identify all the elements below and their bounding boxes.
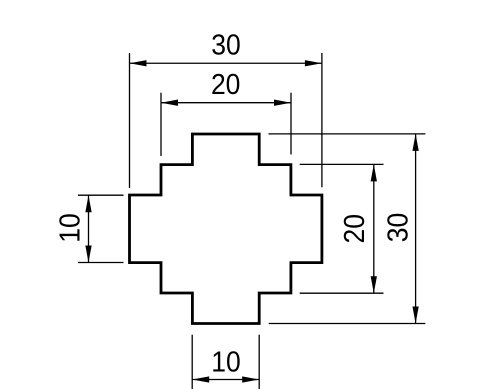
dimension 10 bottom: extension line left (191, 335, 193, 389)
dimension 10 left: extension line bottom (78, 262, 124, 264)
dimension 10 left: bottom arrowhead (85, 246, 91, 263)
dimension 30 right: bottom arrowhead (412, 307, 418, 324)
dimension 10 left: dimension line (88, 195, 90, 262)
dimension 10 left: label 10 (55, 213, 87, 243)
dimension 10 left: extension line top (78, 194, 124, 196)
dimension 30 right: extension line bottom (269, 323, 426, 325)
dimension 10 bottom: right arrowhead (242, 376, 259, 382)
svg-text:10: 10 (55, 213, 87, 243)
svg-text:30: 30 (382, 213, 414, 243)
dimension 20 right: extension line bottom (300, 292, 384, 294)
dimension 30 top: label 30 (211, 30, 241, 62)
dimension 10 bottom: extension line right (258, 335, 260, 389)
dimension 20 top: left arrowhead (161, 100, 178, 106)
dimension 20 top: right arrowhead (274, 100, 291, 106)
dimension 30 top: left arrowhead (130, 60, 147, 66)
dimension 30 top: right arrowhead (305, 60, 322, 66)
svg-text:10: 10 (211, 346, 241, 378)
dimension 20 top: extension line left (160, 93, 162, 156)
dimension 20 right: top arrowhead (371, 164, 377, 181)
dimension 30 right: dimension line (415, 134, 417, 324)
dimension 20 top: extension line right (290, 93, 292, 155)
dimension 30 right: label 30 (382, 213, 414, 243)
dimension 30 top: extension line right (321, 53, 323, 187)
svg-text:20: 20 (211, 69, 241, 101)
dimension 10 bottom: left arrowhead (192, 376, 209, 382)
svg-text:30: 30 (211, 30, 241, 62)
svg-text:20: 20 (339, 214, 371, 244)
dimension 20 right: bottom arrowhead (371, 276, 377, 293)
dimension 20 right: dimension line (373, 164, 375, 293)
dimension 20 right: extension line top (300, 163, 384, 165)
dimension 30 right: top arrowhead (412, 134, 418, 151)
stepped cross outline (130, 134, 322, 324)
dimension 30 right: extension line top (269, 133, 426, 135)
dimension 30 top: dimension line (130, 62, 322, 64)
dimension 10 left: top arrowhead (85, 195, 91, 212)
dimension 20 right: label 20 (339, 214, 371, 244)
dimension 10 bottom: dimension line (192, 379, 259, 381)
dimension 20 top: dimension line (161, 102, 291, 104)
dimension 10 bottom: label 10 (211, 346, 241, 378)
dimension 20 top: label 20 (211, 69, 241, 101)
dimension 30 top: extension line left (129, 53, 131, 188)
